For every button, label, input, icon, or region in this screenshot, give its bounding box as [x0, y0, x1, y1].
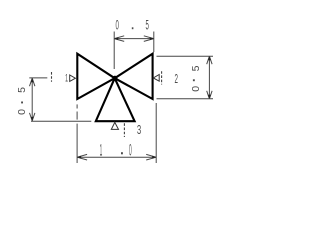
svg-text:0: 0: [129, 140, 132, 159]
svg-text:1: 1: [100, 140, 103, 159]
svg-text:0: 0: [16, 109, 28, 115]
svg-text:3: 3: [137, 123, 141, 138]
svg-text:0: 0: [190, 86, 202, 92]
svg-text:5: 5: [16, 87, 28, 93]
svg-text:5: 5: [146, 19, 149, 33]
svg-text:1: 1: [65, 71, 68, 84]
svg-text:5: 5: [190, 65, 202, 71]
svg-text:0: 0: [116, 19, 119, 33]
svg-text:2: 2: [174, 73, 177, 87]
